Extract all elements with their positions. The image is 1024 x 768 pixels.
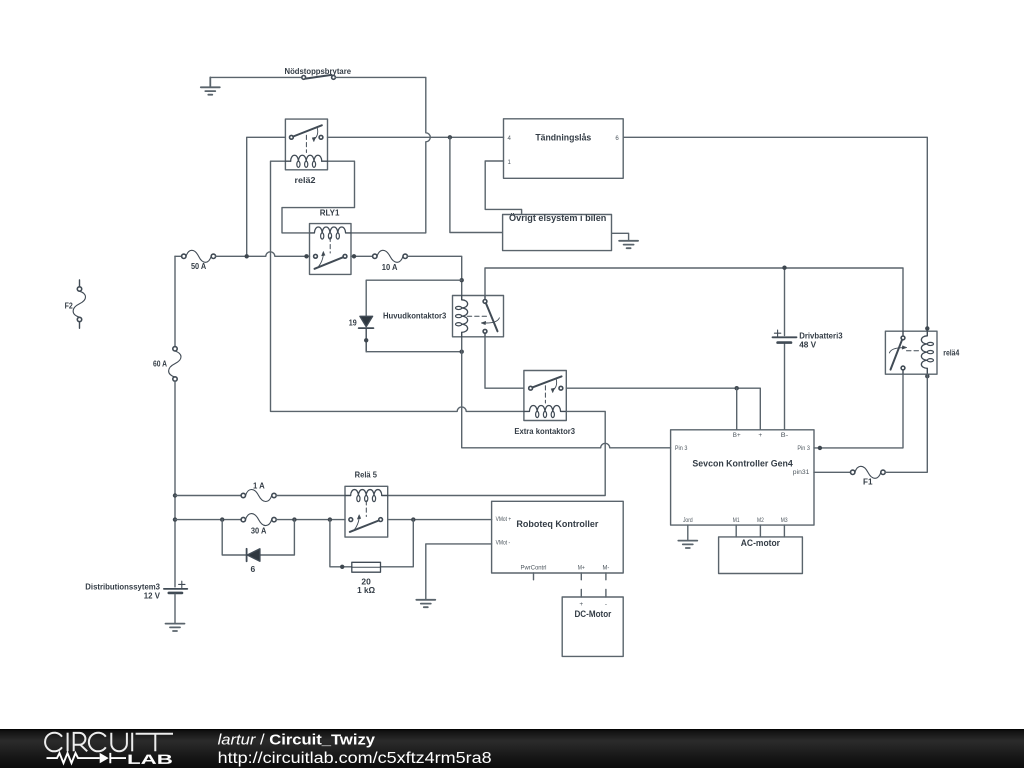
svg-text:Huvudkontaktor3: Huvudkontaktor3 — [383, 311, 447, 321]
svg-text:10 A: 10 A — [382, 262, 398, 272]
svg-text:Nödstoppsbrytare: Nödstoppsbrytare — [285, 66, 352, 76]
fuse 60 A — [169, 347, 181, 382]
svg-text:M+: M+ — [578, 564, 585, 571]
svg-text:F2: F2 — [65, 301, 73, 311]
svg-text:Sevcon Kontroller Gen4: Sevcon Kontroller Gen4 — [692, 459, 793, 470]
node: junction bus / 1A row — [173, 493, 177, 497]
wire: diode 6 bypass loop — [222, 520, 294, 555]
wire: relä2 switch right pin to Tändningslås pin 4 — [328, 136, 504, 138]
CircuitLab logo symbol: resistor zigzag and diode — [47, 753, 127, 763]
wire: main bus (50A corner down to 60A fuse) — [174, 256, 176, 346]
wire: 10A fuse right, down to Huvudkontaktor3 coil top — [407, 256, 461, 295]
box DC-Motor — [562, 597, 623, 656]
wire: main bus (60A down to battery Distributionssytem3) — [174, 381, 176, 587]
svg-text:50 A: 50 A — [191, 261, 206, 271]
box Roboteq Kontroller — [492, 501, 624, 573]
wire: junction down to Sevcon B+ — [736, 388, 738, 430]
ground G5 (battery 12V) — [166, 624, 185, 631]
wire: Roboteq PwrContrl stub — [533, 573, 535, 580]
ground G4 (Roboteq VMot-) — [416, 600, 435, 607]
svg-text:+: + — [758, 432, 762, 439]
relay relä2 coil — [285, 155, 327, 167]
resistor R20 1kΩ — [352, 562, 381, 572]
node: resistor left pin dot — [340, 565, 344, 569]
wire: Sevcon M3 stub to AC-motor — [783, 525, 785, 537]
svg-text:M-: M- — [603, 564, 610, 571]
svg-text:48 V: 48 V — [799, 340, 816, 350]
wire: relä2 coil left down, across (hop over coil-bottom riser) to Extra kontaktor3 coil left — [271, 161, 524, 411]
relay Extra kontaktor3 box — [524, 371, 566, 421]
wire: Relä 5 switch right to Roboteq VMot+ — [388, 519, 492, 521]
battery Drivbatteri3 48V — [784, 268, 786, 430]
node: junction coil bottom / diode net — [460, 350, 464, 354]
wire: Övrigt elsystem right to ground G2 — [612, 233, 629, 241]
wire: junction down to Övrigt elsystem left pin — [450, 137, 503, 232]
wire: DC-Motor + stub — [580, 589, 582, 597]
svg-text:DC-Motor: DC-Motor — [574, 609, 611, 620]
relay relä4 switch — [889, 331, 920, 374]
wire: relä2 switch left pin down to 50A node — [247, 137, 286, 256]
svg-text:60 A: 60 A — [153, 359, 167, 369]
svg-text:VMot -: VMot - — [496, 540, 511, 547]
node: junction battery48 top — [782, 266, 786, 270]
wire: Tändningslås pin 1 to Övrigt elsystem top — [485, 161, 521, 215]
wire: relä4 switch bottom down to Sevcon Pin 3 (right) — [814, 374, 903, 448]
diode 19 — [359, 316, 374, 351]
node: junction Tändningslås pin4 net — [448, 135, 452, 139]
svg-text:M3: M3 — [781, 517, 788, 524]
wire: Roboteq M+ stub — [580, 573, 582, 580]
wire: Extra kontaktor3 switch right to Sevcon B+ and + — [566, 388, 760, 430]
svg-text:lartur / Circuit_Twizy: lartur / Circuit_Twizy — [218, 732, 376, 749]
wire: relä2 coil right to RLY1 coil left — [282, 161, 355, 233]
relay Relä 5 coil — [345, 490, 388, 502]
relay RLY1 coil — [310, 227, 352, 239]
wire: main bus top corner to 50A fuse — [175, 255, 182, 257]
wire: 1A row left — [175, 495, 241, 497]
node: junction 50A / relä2 switch net — [245, 254, 249, 258]
wire: Roboteq VMot- to ground G4 — [426, 544, 492, 600]
svg-text:6: 6 — [251, 564, 256, 574]
node: RLY1 switch left pin dot — [304, 254, 308, 258]
wire: Sevcon Jord stub to ground G3 — [687, 525, 689, 541]
wire: Huvudkontaktor3 coil bottom down, right to Sevcon Pin 3 (left), hop over extra-coil riser — [462, 337, 671, 448]
relay RLY1 switch — [314, 237, 347, 268]
wire: 50A fuse to RLY1 switch left, hop over relä2 coil wire — [216, 252, 310, 256]
box AC-motor — [719, 537, 803, 574]
svg-text:1 kΩ: 1 kΩ — [357, 585, 375, 595]
relay relä4 coil (vertical) — [921, 331, 933, 374]
svg-text:PwrContrl: PwrContrl — [521, 564, 547, 571]
relay Huvudkontaktor3 coil (vertical) — [456, 296, 468, 337]
wire: Extra kontaktor3 coil right, down to Relä 5 coil row — [388, 411, 606, 495]
relay Relä 5 box — [345, 486, 388, 537]
svg-text:Övrigt elsystem i bilen: Övrigt elsystem i bilen — [509, 213, 606, 224]
svg-text:6: 6 — [615, 135, 619, 142]
node: junction diode6 left — [220, 517, 224, 521]
svg-text:12 V: 12 V — [144, 590, 160, 600]
svg-text:1: 1 — [508, 159, 512, 166]
svg-text:B+: B+ — [733, 432, 741, 439]
wire: 30A row left — [175, 519, 241, 521]
svg-text:M2: M2 — [757, 517, 764, 524]
box Övrigt elsystem i bilen — [503, 215, 612, 251]
wire: Huvudkontaktor3 switch top up, right to battery node and relä4 switch — [485, 268, 903, 331]
svg-text:4: 4 — [508, 135, 512, 142]
diode 6 — [247, 549, 260, 562]
wire: diode 19 cathode to Huvudkontaktor3 coil bottom — [366, 351, 462, 353]
relay relä2 box — [285, 119, 327, 170]
svg-text:Pin 3: Pin 3 — [675, 445, 688, 452]
wire: 1A fuse to Relä 5 coil left — [276, 495, 345, 497]
wire: ground G1 to switch Nödstoppsbrytare — [210, 76, 301, 78]
fuse 30 A — [241, 514, 276, 526]
relay Huvudkontaktor3 box — [453, 296, 504, 337]
ground G1 (top left, Nödstoppsbrytare net) — [201, 77, 220, 94]
node: junction diode19/coil top — [460, 278, 464, 282]
wire: Nödstoppsbrytare right, down with hop over relä2 wire, to RLY1 coil right — [335, 77, 430, 233]
wire: Tändningslås pin 6 to relä4 coil top — [623, 137, 927, 331]
wire: Sevcon M1 stub to AC-motor — [735, 525, 737, 537]
fuse F1 — [851, 466, 886, 478]
svg-text:relä4: relä4 — [943, 347, 959, 357]
wire: DC-Motor - stub — [605, 589, 607, 597]
svg-text:Roboteq Kontroller: Roboteq Kontroller — [516, 519, 598, 530]
node: junction resistor right riser — [411, 517, 415, 521]
svg-text:-: - — [605, 601, 607, 608]
svg-text:1 A: 1 A — [253, 481, 265, 491]
svg-text:Jord: Jord — [683, 517, 693, 524]
wire: 30A fuse to Relä 5 switch left — [276, 519, 345, 521]
svg-text:LAB: LAB — [127, 752, 173, 767]
svg-text:Relä 5: Relä 5 — [355, 470, 378, 480]
node: junction B+ — [735, 386, 739, 390]
node: junction diode6 right — [292, 517, 296, 521]
relay Extra kontaktor3 switch — [529, 376, 563, 403]
node: junction resistor left riser — [328, 517, 332, 521]
box Tändningslås — [504, 119, 624, 179]
wire: junction left to diode 19 anode — [366, 280, 462, 316]
relay Relä 5 switch — [349, 501, 383, 532]
svg-text:RLY1: RLY1 — [320, 208, 340, 218]
relay Extra kontaktor3 coil — [524, 405, 566, 417]
svg-text:F1: F1 — [863, 477, 873, 487]
svg-text:B-: B- — [781, 432, 788, 439]
svg-text:Extra kontaktor3: Extra kontaktor3 — [514, 426, 575, 436]
svg-text:VMot +: VMot + — [496, 516, 512, 523]
ground G3 (Sevcon Jord) — [678, 541, 697, 548]
svg-text:AC-motor: AC-motor — [741, 538, 780, 549]
node: relä4 coil bottom pin dot — [925, 374, 929, 378]
node: RLY1 switch right pin dot — [352, 254, 356, 258]
svg-text:http://circuitlab.com/c5xftz4r: http://circuitlab.com/c5xftz4rm5ra8 — [218, 750, 492, 767]
wire: RLY1 switch right to 10A fuse — [351, 255, 373, 257]
box Sevcon Kontroller Gen4 — [671, 430, 814, 525]
node: relä4 coil top pin dot — [925, 326, 929, 330]
node: diode 19 cathode pin dot — [364, 338, 368, 342]
wire: battery negative to ground G5 — [174, 594, 176, 623]
node: Sevcon right Pin 3 dot — [818, 446, 822, 450]
wire: Roboteq M- stub — [605, 573, 607, 580]
svg-text:19: 19 — [349, 317, 357, 327]
relay RLY1 box — [310, 224, 352, 275]
node: junction bus / 30A row — [173, 517, 177, 521]
fuse F2 (floating, far left) — [73, 280, 85, 328]
fuse 50 A — [182, 250, 216, 262]
wire: resistor 20 branch (parallel with Relä 5 switch) — [330, 520, 413, 567]
battery Distributionssytem3 12V — [164, 581, 187, 593]
svg-text:pin31: pin31 — [793, 469, 810, 476]
svg-text:relä2: relä2 — [295, 175, 316, 185]
wire: fuse F1 to relä4 coil bottom — [885, 374, 927, 472]
relay relä2 switch — [290, 125, 323, 152]
fuse 10 A — [373, 250, 408, 262]
ground G2 (Övrigt elsystem) — [619, 241, 638, 248]
wire: Huvudkontaktor3 switch bottom down to Extra kontaktor3 switch left — [485, 337, 524, 388]
wire: Sevcon pin31 to fuse F1 — [814, 471, 851, 473]
svg-text:M1: M1 — [733, 517, 740, 524]
fuse 1 A — [241, 489, 276, 501]
svg-text:Pin 3: Pin 3 — [797, 445, 810, 452]
CircuitLab logo text CIRCUIT (custom thin letterforms) — [45, 733, 173, 752]
relay relä4 box — [885, 331, 937, 374]
svg-text:+: + — [579, 601, 583, 608]
switch Nödstoppsbrytare (emergency stop) — [302, 75, 336, 79]
svg-text:Tändningslås: Tändningslås — [535, 132, 591, 143]
wire: Sevcon M2 stub to AC-motor — [759, 525, 761, 537]
relay Huvudkontaktor3 switch — [467, 296, 499, 337]
svg-text:30 A: 30 A — [251, 526, 267, 536]
